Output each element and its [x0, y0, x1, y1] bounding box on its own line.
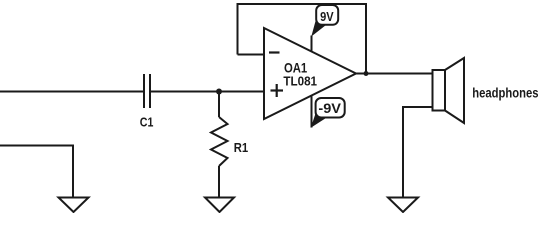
wire C1 to op-amp + input [151, 91, 265, 93]
svg-text:TL081: TL081 [283, 73, 317, 88]
op-amp U1 triangle [264, 28, 356, 119]
ground right [388, 198, 418, 213]
wire R1 to ground [218, 166, 220, 197]
svg-text:9V: 9V [320, 9, 334, 24]
wire minus input [238, 54, 265, 56]
wire speaker to ground [403, 107, 433, 197]
wire input to C1 [0, 91, 144, 93]
wire -9V supply stub [311, 96, 313, 128]
ground left [59, 198, 89, 213]
plus sign at op-amp [271, 84, 284, 97]
wire +9V supply stub [311, 36, 313, 52]
svg-text:R1: R1 [234, 140, 248, 155]
wire output [356, 73, 433, 75]
capacitor C1 [144, 74, 150, 108]
node output junction [364, 71, 369, 76]
ground under R1 [205, 198, 234, 213]
svg-text:-9V: -9V [318, 101, 341, 116]
minus sign at op-amp [269, 51, 280, 53]
speaker headphones [433, 58, 465, 123]
svg-text:C1: C1 [140, 114, 154, 129]
-9V flag [311, 98, 345, 128]
wire feedback loop [238, 4, 367, 74]
node junction at R1 [216, 89, 222, 95]
wire left input ground branch [0, 146, 73, 198]
resistor R1 [211, 117, 228, 166]
svg-text:headphones: headphones [472, 85, 538, 101]
+9V flag [311, 5, 338, 37]
wire node to R1 [218, 92, 220, 118]
